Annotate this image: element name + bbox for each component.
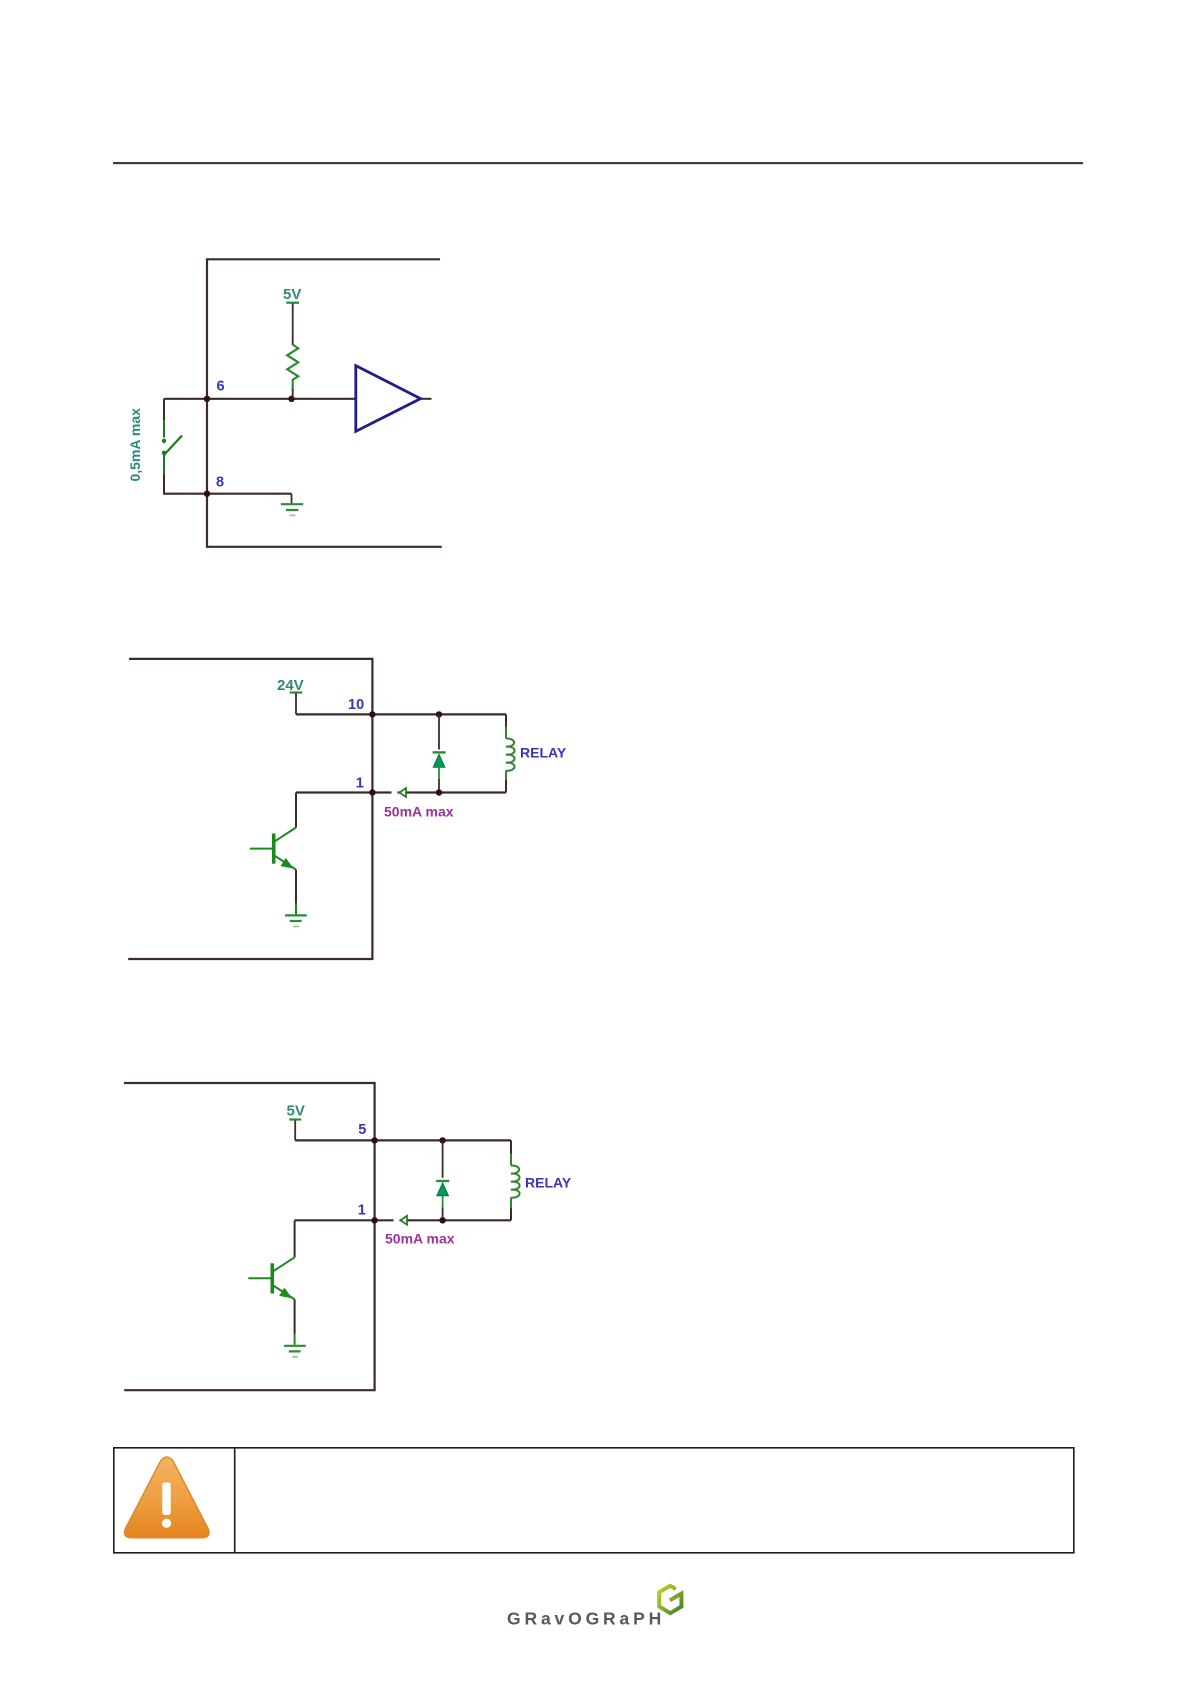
- switch S1 contact bottom: [162, 451, 166, 455]
- switch lower lead wire: [163, 474, 165, 494]
- relay coil upper lead green: [510, 1154, 512, 1166]
- svg-text:RELAY: RELAY: [520, 745, 567, 761]
- transistor Q1 base lead: [250, 848, 272, 850]
- current direction arrow wire gap: [394, 1219, 400, 1222]
- transistor Q1 collector diagonal: [275, 828, 296, 842]
- relay branch top wire: [510, 1140, 512, 1153]
- emitter lead green part: [295, 903, 297, 914]
- ground third bar: [293, 925, 299, 927]
- switch upper lead wire: [163, 399, 165, 421]
- current direction arrow: [401, 1216, 408, 1225]
- switch lower lead green part: [163, 455, 165, 474]
- node junction diode bottom: [436, 789, 442, 795]
- diode D2 triangle: [437, 1183, 449, 1196]
- diode D2 lower lead green: [442, 1196, 444, 1208]
- op-amp buffer U1: [356, 366, 421, 432]
- ground GND3: [284, 1346, 306, 1352]
- resistor R1: [287, 345, 298, 391]
- transistor Q2 collector diagonal: [273, 1257, 294, 1271]
- node junction pin5 on box: [371, 1137, 377, 1143]
- header rule: [113, 162, 1083, 164]
- transistor Q1 collector wire: [295, 793, 297, 828]
- transistor Q1 emitter arrow: [282, 859, 292, 867]
- 5V supply lead wire: [294, 1120, 296, 1140]
- controller box outline: [124, 1083, 375, 1390]
- svg-text:6: 6: [217, 379, 225, 395]
- warning triangle icon: [124, 1457, 209, 1538]
- transistor Q2 collector wire: [294, 1220, 296, 1257]
- svg-text:1: 1: [358, 1203, 366, 1219]
- ground GND2: [285, 915, 307, 921]
- node junction diode top: [439, 1137, 445, 1143]
- 5V power bar: [289, 1118, 301, 1120]
- node junction pin1 on box: [371, 1217, 377, 1223]
- svg-text:50mA max: 50mA max: [384, 804, 454, 820]
- node junction pin1 on box: [369, 789, 375, 795]
- svg-text:GRavOGRaPH: GRavOGRaPH: [507, 1609, 665, 1629]
- relay branch bottom wire: [505, 781, 507, 793]
- relay coil L2: [511, 1165, 520, 1197]
- switch upper lead green part: [163, 420, 165, 438]
- relay coil lower lead green: [505, 771, 507, 781]
- switch S1 contact top: [162, 439, 166, 443]
- wire pin5 top: [295, 1139, 511, 1141]
- relay coil lower lead green: [510, 1198, 512, 1209]
- transistor Q2 emitter wire: [294, 1299, 296, 1333]
- 5V supply lead wire: [292, 304, 294, 345]
- ground third bar: [292, 1356, 298, 1358]
- current direction arrow: [400, 788, 407, 797]
- ground GND1: [281, 504, 303, 510]
- node junction diode bottom: [439, 1217, 445, 1223]
- diode D1 upper lead: [438, 714, 440, 749]
- warning exclamation bar: [162, 1483, 170, 1516]
- transistor Q2 emitter arrow: [280, 1289, 290, 1297]
- warning table divider: [234, 1448, 236, 1554]
- relay branch bottom wire: [510, 1209, 512, 1221]
- node junction pin8 on box: [204, 491, 210, 497]
- diode D1 lower lead green: [438, 767, 440, 779]
- svg-text:5V: 5V: [287, 1103, 305, 1120]
- warning exclamation dot: [162, 1519, 171, 1528]
- relay coil upper lead green: [505, 727, 507, 739]
- svg-text:5V: 5V: [283, 286, 301, 303]
- current direction arrow wire gap: [392, 791, 398, 794]
- ground stub: [291, 494, 293, 504]
- Gravograph G cube icon: [659, 1586, 681, 1613]
- transistor Q1 emitter wire: [295, 870, 297, 903]
- svg-text:5: 5: [358, 1122, 366, 1138]
- diode D1 cathode bar: [433, 751, 446, 753]
- wire pin1 bottom: [296, 791, 506, 793]
- svg-text:0,5mA max: 0,5mA max: [127, 408, 143, 482]
- ground third bar: [290, 514, 296, 516]
- wire pin1 bottom: [295, 1219, 511, 1221]
- diode D1 triangle: [433, 754, 445, 767]
- 24V power bar: [290, 691, 303, 693]
- warning table border: [114, 1448, 1074, 1553]
- svg-text:8: 8: [216, 475, 224, 491]
- warning box: [114, 1448, 1074, 1554]
- diode D2 cathode bar: [436, 1180, 449, 1182]
- transistor Q2 base bar: [270, 1263, 274, 1293]
- transistor Q2 emitter diagonal: [273, 1286, 294, 1300]
- svg-text:10: 10: [348, 697, 364, 713]
- svg-text:RELAY: RELAY: [525, 1175, 572, 1191]
- svg-text:1: 1: [356, 776, 364, 792]
- transistor Q1 base bar: [272, 834, 276, 864]
- node junction pin6 on box: [204, 396, 210, 402]
- relay branch top wire: [505, 714, 507, 726]
- node junction diode top: [436, 711, 442, 717]
- diode D1 lower lead wire: [438, 779, 440, 793]
- controller box outline: [207, 259, 442, 547]
- wire pin10 top: [296, 713, 506, 715]
- transistor Q2 base lead: [248, 1277, 270, 1279]
- diode D2 lower lead wire: [442, 1208, 444, 1221]
- footer logo: [507, 1586, 681, 1629]
- resistor lower lead: [292, 389, 294, 399]
- relay coil L1: [506, 738, 515, 770]
- node junction pin10 on box: [369, 711, 375, 717]
- wire buffer output: [420, 398, 432, 400]
- svg-text:50mA max: 50mA max: [385, 1231, 455, 1247]
- transistor Q1 emitter diagonal: [275, 856, 296, 870]
- wire pin8: [163, 493, 292, 495]
- switch S1 blade: [164, 436, 183, 456]
- diode D2 upper lead: [442, 1140, 444, 1177]
- 5V power bar: [286, 302, 299, 304]
- 24V supply lead wire: [295, 693, 297, 714]
- emitter lead green part: [294, 1334, 296, 1345]
- controller box outline: [128, 659, 372, 959]
- node junction resistor-wire: [288, 396, 294, 402]
- wire pin6 input: [164, 398, 356, 400]
